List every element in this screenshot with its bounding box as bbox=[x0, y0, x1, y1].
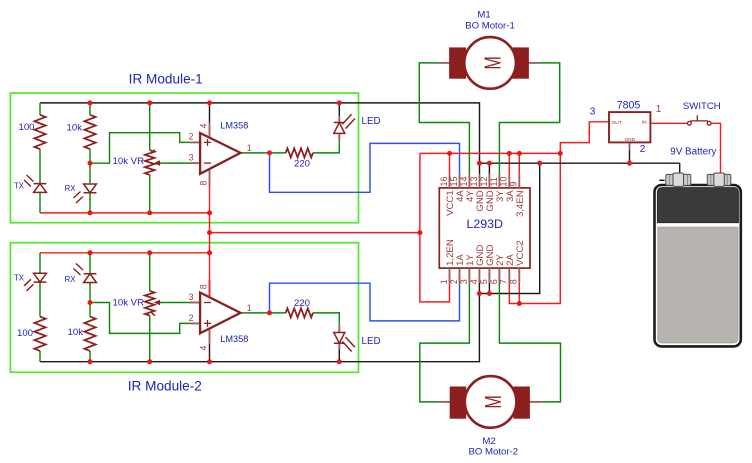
wire: switch to battery plus (red) bbox=[711, 123, 721, 174]
resistor 100 (module2) bbox=[34, 317, 45, 351]
svg-text:10k VR: 10k VR bbox=[113, 156, 145, 167]
svg-text:2: 2 bbox=[189, 313, 194, 323]
wire: 220 to LED1 bbox=[313, 141, 339, 153]
junction dots (all nets) bbox=[88, 100, 633, 364]
wire: VR2 wiper to op-amp2 pin3 bbox=[158, 302, 201, 304]
op-amp U2 minus sign bbox=[204, 302, 211, 304]
LED2 arrows bbox=[342, 337, 355, 351]
wire: M2 left to pin3 1Y (green) bbox=[420, 283, 470, 402]
LED1 arrows bbox=[342, 114, 355, 128]
svg-text:BO Motor-1: BO Motor-1 bbox=[465, 20, 515, 31]
wire: TX to +5V rail bbox=[39, 192, 41, 213]
wire: pin4 GND link bbox=[478, 283, 480, 294]
op-amp U1 pin8 lead bbox=[209, 169, 211, 187]
diode RX (module2) bbox=[84, 274, 97, 283]
diode TX (module1) bbox=[34, 184, 47, 193]
resistor 220 (module1) bbox=[286, 148, 313, 157]
op-amp U1 pin3 lead bbox=[190, 162, 200, 164]
IC U3 L293D body bbox=[439, 188, 530, 268]
wire: +5V right drop to pins 7/8 bbox=[509, 153, 560, 303]
svg-text:8: 8 bbox=[199, 284, 209, 289]
svg-text:SWITCH: SWITCH bbox=[683, 101, 721, 112]
svg-text:OUT: OUT bbox=[612, 120, 622, 126]
svg-text:4: 4 bbox=[199, 346, 209, 351]
svg-text:1: 1 bbox=[247, 303, 252, 313]
wire: module1 GND top rail (black) bbox=[40, 103, 480, 174]
svg-text:LED: LED bbox=[362, 336, 381, 347]
motor M2 right terminal bbox=[514, 387, 530, 418]
svg-text:10: 10 bbox=[499, 176, 509, 186]
svg-text:14: 14 bbox=[459, 176, 469, 186]
wire: +5V to pin10 3A bbox=[508, 153, 510, 174]
wire: RX2 to 10k junction link bbox=[89, 283, 91, 317]
svg-text:1: 1 bbox=[439, 279, 449, 284]
wire: 10k top lead bbox=[89, 103, 91, 115]
svg-text:3: 3 bbox=[459, 279, 469, 284]
wire: 100 bottom lead (module2) bbox=[39, 351, 41, 362]
svg-text:2: 2 bbox=[189, 132, 194, 142]
IR Module-2 bounding box bbox=[10, 243, 358, 373]
svg-text:11: 11 bbox=[489, 177, 499, 186]
svg-text:IR Module-1: IR Module-1 bbox=[129, 72, 203, 87]
wire: 7805 IN to switch (red) bbox=[650, 122, 687, 124]
wire: 220 to LED2 bbox=[313, 313, 339, 325]
svg-text:10k VR: 10k VR bbox=[113, 298, 145, 309]
svg-text:M1: M1 bbox=[477, 9, 490, 20]
svg-text:220: 220 bbox=[294, 158, 310, 169]
IC U3 bottom pin numbers bbox=[439, 279, 519, 284]
switch S1 right contact bbox=[707, 121, 711, 125]
wire: GND to pin12 bbox=[488, 163, 490, 174]
wire: 100/TX leg top lead bbox=[39, 103, 41, 115]
wire: op-amp2 output to junction bbox=[241, 312, 270, 314]
wire: module2 GND bottom rail (black) bbox=[40, 294, 479, 362]
svg-text:3: 3 bbox=[590, 106, 596, 117]
resistor 10k (module1) bbox=[84, 115, 95, 149]
motor M1 right lead bbox=[527, 62, 539, 64]
wire: TX2 to 100 link bbox=[39, 282, 41, 317]
svg-text:M: M bbox=[481, 56, 507, 69]
wire: pin5 GND link bbox=[488, 283, 490, 294]
wire: 100 to TX link bbox=[39, 149, 41, 184]
svg-text:9V Battery: 9V Battery bbox=[670, 146, 716, 157]
resistor 220 (module2) bbox=[286, 308, 313, 317]
wire: 7805 OUT to +5V rail (red) bbox=[560, 122, 609, 154]
svg-text:12: 12 bbox=[479, 176, 489, 186]
op-amp U1 LM358 triangle bbox=[200, 133, 240, 174]
regulator VR3 7805 body bbox=[609, 112, 650, 142]
wire: RX2 top lead bbox=[89, 253, 91, 274]
svg-text:4: 4 bbox=[469, 279, 479, 284]
svg-text:LED: LED bbox=[362, 116, 381, 127]
IC U3 bottom pin names bbox=[445, 239, 526, 266]
wire: GND right drop to pins 4/5 bbox=[479, 163, 539, 293]
op-amp U2 pin2 lead bbox=[190, 322, 200, 324]
TX emit arrows (module1) bbox=[24, 175, 34, 187]
wire: op-amp2 output to L293D pin2 (blue) bbox=[270, 283, 460, 321]
battery minus sign bbox=[659, 179, 664, 181]
svg-text:TX: TX bbox=[14, 181, 25, 190]
wire: junction to 220 resistor bbox=[270, 152, 286, 154]
svg-text:M2: M2 bbox=[482, 436, 495, 447]
svg-text:3: 3 bbox=[189, 152, 194, 162]
svg-text:GND: GND bbox=[624, 137, 635, 143]
wire: op-amp supply vertical (pin8 U1 to pin8 U2, red) bbox=[209, 186, 211, 298]
wire: RX to +5V rail bbox=[89, 193, 91, 213]
wire: pin8 VCC2 to +5V bbox=[518, 283, 520, 304]
wire: 10k to RX junction link bbox=[89, 149, 91, 183]
op-amp U1 minus sign bbox=[204, 162, 211, 164]
op-amp U2 pin8 lead bbox=[209, 280, 211, 298]
resistor 10k (module2) bbox=[84, 317, 95, 351]
svg-text:2: 2 bbox=[640, 144, 646, 155]
diode TX (module2) bbox=[34, 273, 47, 282]
svg-text:LM358: LM358 bbox=[220, 334, 248, 344]
svg-text:1: 1 bbox=[247, 143, 252, 153]
motor M1 right terminal bbox=[513, 48, 529, 78]
svg-text:1: 1 bbox=[656, 104, 662, 115]
svg-text:4: 4 bbox=[199, 124, 209, 129]
RX receive arrows (module1) bbox=[74, 192, 84, 204]
svg-text:BO Motor-2: BO Motor-2 bbox=[469, 447, 519, 458]
motor M1 left lead bbox=[439, 62, 451, 64]
wire: +5V link to L293D area bbox=[210, 232, 420, 234]
svg-text:15: 15 bbox=[449, 176, 459, 186]
svg-text:8: 8 bbox=[509, 279, 519, 284]
trimmer VR1 wiper arrow bbox=[157, 162, 160, 164]
svg-text:RX: RX bbox=[65, 275, 77, 284]
wire: VR1 top lead bbox=[149, 103, 151, 150]
wire: 10k bottom lead (module2) bbox=[89, 351, 91, 362]
svg-text:IN: IN bbox=[642, 120, 647, 126]
resistor 100 (module1) bbox=[34, 115, 45, 149]
battery BT1 grey body bbox=[658, 227, 738, 343]
wire: op-amp1 output to junction bbox=[241, 152, 270, 154]
wire: +5V rail over L293D (red) bbox=[420, 152, 560, 154]
wire: GND rail beside L293D (black) bbox=[480, 162, 680, 164]
svg-text:7: 7 bbox=[499, 279, 509, 284]
svg-text:6: 6 bbox=[489, 279, 499, 284]
svg-text:10k: 10k bbox=[67, 123, 83, 134]
svg-text:100: 100 bbox=[18, 122, 34, 133]
svg-text:RX: RX bbox=[65, 184, 77, 193]
wire: VR2 top lead bbox=[149, 253, 151, 291]
op-amp U1 pin2 lead bbox=[190, 141, 200, 143]
wire: module2 +5V top rail (red) bbox=[40, 252, 210, 254]
IC U3 bottom pin leads (1-8) bbox=[450, 268, 520, 283]
svg-text:3,4EN: 3,4EN bbox=[515, 190, 526, 217]
svg-text:9: 9 bbox=[509, 181, 519, 186]
wire: junction to 220 resistor (module2) bbox=[270, 312, 286, 314]
wire: module1 +5V bottom rail (red) bbox=[40, 212, 210, 214]
wire: op-amp1 output to L293D pin15 (blue) bbox=[270, 143, 460, 192]
wire: M1 left to pin14 4Y (green) bbox=[419, 63, 469, 174]
motor M2 body circle bbox=[465, 376, 517, 428]
motor M2 left lead bbox=[438, 401, 451, 403]
svg-text:3: 3 bbox=[189, 292, 194, 302]
svg-text:220: 220 bbox=[294, 298, 310, 309]
motor M1 left terminal bbox=[450, 48, 466, 78]
diode RX (module1) bbox=[84, 184, 97, 193]
svg-text:8: 8 bbox=[199, 181, 209, 186]
svg-text:100: 100 bbox=[17, 328, 33, 339]
svg-text:2: 2 bbox=[449, 279, 459, 284]
IC U3 top pin names bbox=[445, 190, 526, 217]
wire: M1 right to pin11 3Y (green) bbox=[499, 63, 559, 174]
LED2 diode bbox=[334, 333, 345, 344]
wire: +5V to pin9 3,4EN bbox=[518, 153, 520, 174]
battery BT1 minus terminal bbox=[666, 173, 691, 186]
LED1 diode bbox=[334, 123, 345, 134]
IC U3 top pin leads (16-9) bbox=[450, 174, 520, 188]
wire: 7805 GND to ground rail bbox=[629, 151, 631, 164]
wire: M2 right to pin6 2Y (green) bbox=[499, 283, 560, 402]
wire: 7805 GND lead bbox=[629, 142, 631, 150]
wire: junction to op-amp2 pin2 jog bbox=[90, 303, 200, 334]
switch S1 left contact bbox=[688, 121, 692, 125]
svg-text:IR Module-2: IR Module-2 bbox=[128, 379, 202, 394]
motor M2 left terminal bbox=[450, 387, 466, 418]
svg-text:5: 5 bbox=[479, 279, 489, 284]
motor M2 right lead bbox=[528, 401, 542, 403]
op-amp U1 plus sign bbox=[204, 139, 211, 146]
wire: VR1 wiper to op-amp pin3 bbox=[158, 162, 201, 164]
wire: VR1 bottom lead bbox=[149, 175, 151, 213]
op-amp U2 pin3 lead bbox=[190, 302, 200, 304]
svg-text:16: 16 bbox=[439, 176, 449, 186]
op-amp U2 pin4 lead bbox=[209, 329, 211, 345]
battery BT1 plus terminal bbox=[707, 173, 731, 186]
wire: TX2 top lead bbox=[39, 253, 41, 273]
wire: +5V to pin16 VCC1 bbox=[449, 153, 451, 174]
svg-text:M: M bbox=[481, 395, 507, 408]
svg-text:7805: 7805 bbox=[617, 99, 641, 111]
trimmer 10k VR (module1) bbox=[145, 150, 155, 175]
svg-text:VCC2: VCC2 bbox=[515, 240, 526, 266]
battery BT1 body outline bbox=[655, 185, 741, 346]
svg-text:13: 13 bbox=[469, 176, 479, 186]
battery BT1 top dark section bbox=[657, 188, 738, 223]
trimmer VR2 wiper arrow bbox=[157, 302, 160, 304]
op-amp U1 pin4 lead bbox=[209, 103, 211, 122]
wire: LED1 to GND rail lead bbox=[338, 103, 340, 116]
svg-text:LM358: LM358 bbox=[220, 121, 248, 131]
wire: VR2 bottom lead bbox=[149, 316, 151, 362]
svg-text:TX: TX bbox=[14, 274, 25, 283]
op-amp U2 plus sign bbox=[204, 320, 211, 327]
wire: +5V left drop to pin1 1,2EN bbox=[420, 153, 450, 302]
TX emit arrows (module2) bbox=[24, 279, 34, 291]
wire: junction to op-amp pin2 (non-inv) jog bbox=[90, 133, 200, 164]
switch S1 lever bbox=[691, 115, 709, 121]
wire: LED2 to GND rail lead bbox=[338, 343, 340, 349]
op-amp U2 LM358 triangle bbox=[200, 293, 240, 334]
IC U3 top pin numbers bbox=[439, 176, 519, 186]
trimmer 10k VR (module2) bbox=[145, 291, 155, 316]
RX receive arrows (module2) bbox=[74, 264, 84, 276]
svg-text:10k: 10k bbox=[68, 327, 84, 338]
motor M1 body circle bbox=[464, 37, 516, 89]
IR Module-1 bounding box bbox=[10, 93, 358, 223]
svg-text:L293D: L293D bbox=[466, 217, 503, 231]
wire: GND rail to battery minus (black) bbox=[679, 163, 681, 175]
